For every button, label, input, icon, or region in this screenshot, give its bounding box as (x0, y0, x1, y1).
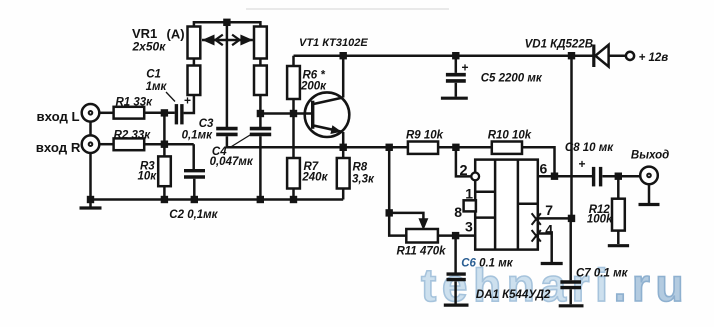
svg-text:7: 7 (545, 202, 553, 218)
svg-text:R10 10k: R10 10k (488, 129, 532, 141)
ground bus wire (91, 198, 344, 201)
ground (under C5) (441, 97, 468, 100)
ground (under C7) (559, 304, 584, 307)
diode VD1 (594, 45, 609, 68)
svg-text:C7 0.1 мк: C7 0.1 мк (576, 267, 629, 279)
svg-text:+: + (462, 61, 469, 75)
wire (617, 176, 620, 199)
capacitor C2 (184, 144, 205, 199)
wire (259, 95, 262, 127)
svg-text:8: 8 (454, 204, 462, 220)
wire (144, 143, 194, 146)
ground (under C6) (444, 304, 469, 307)
wire (R11 drop from emitter line) (388, 147, 391, 213)
node (pot top center) (223, 19, 230, 26)
wire (R10 to output node) (522, 147, 555, 176)
svg-text:1: 1 (465, 186, 473, 202)
svg-text:C1: C1 (146, 69, 161, 81)
node (supply drop at rail) (568, 52, 575, 59)
node G (386, 144, 393, 151)
ground (80, 200, 102, 209)
X mark pin 4 (532, 230, 541, 242)
wire (pot top rail) (194, 22, 261, 26)
wire (collector) (342, 56, 345, 98)
svg-text:вход L: вход L (37, 109, 80, 124)
wire (wiper feed) (389, 213, 423, 222)
wire (163, 186, 166, 199)
wire (pin 4 to ground) (538, 234, 552, 263)
wire (456, 146, 492, 149)
capacitor C5 (446, 56, 469, 97)
wire (184, 95, 194, 113)
svg-text:2x50к: 2x50к (132, 40, 167, 54)
resistor R11 (406, 229, 438, 243)
wire (output shell) (648, 184, 651, 203)
wire (pin 7) (538, 217, 572, 220)
watermark tehnari.ru (421, 258, 689, 312)
svg-text:4: 4 (545, 222, 553, 238)
wiper arrows of VR1 (202, 35, 253, 46)
node D (290, 110, 297, 117)
wire (99, 112, 114, 115)
svg-text:0,047мк: 0,047мк (210, 156, 254, 168)
svg-text:R2 33к: R2 33к (114, 129, 152, 141)
capacitor C8 (579, 157, 601, 186)
ground (output shell) (639, 203, 660, 206)
junction (shell-bus) (87, 196, 94, 203)
node F (R9/R10/pin2) (452, 144, 459, 151)
connector XS2 (вход R) (82, 135, 100, 153)
transistor VT1 (305, 92, 350, 137)
ground (under R12) (608, 244, 629, 247)
svg-text:VT1 КТ3102Е: VT1 КТ3102Е (299, 37, 368, 49)
svg-text:R1 33к: R1 33к (116, 96, 154, 108)
potentiometer VR1 section A (left) (188, 27, 201, 59)
svg-text:Выход: Выход (631, 149, 669, 161)
svg-text:240к: 240к (301, 172, 328, 184)
svg-text:2: 2 (460, 163, 468, 179)
terminal +12v (626, 52, 634, 60)
svg-text:100k: 100k (587, 213, 613, 225)
wire (89, 153, 92, 200)
wire (259, 59, 262, 66)
node (collector-rail) (340, 52, 347, 59)
node I (pin3/C6) (452, 232, 459, 239)
svg-text:+ 12в: + 12в (639, 52, 669, 64)
resistor R6 (287, 66, 300, 99)
resistor R12 (612, 199, 625, 231)
svg-text:вход R: вход R (36, 140, 81, 155)
svg-text:R11 470k: R11 470k (397, 246, 447, 258)
resistor R10 (492, 142, 522, 154)
junction (C4-bus) (257, 196, 264, 203)
wire (617, 231, 620, 244)
svg-text:6: 6 (540, 160, 548, 176)
svg-text:R8: R8 (353, 162, 368, 174)
wire (R11 left lead) (389, 213, 406, 236)
junction (C2-bus) (191, 196, 198, 203)
wire (144, 112, 175, 115)
ground (pin 4) (541, 262, 563, 265)
node A (mix node) (161, 109, 168, 116)
capacitor C6 (447, 236, 466, 304)
wiper arrow of R11 (419, 219, 427, 229)
node E (emitter) (340, 144, 347, 151)
connector XS1 (вход L) (82, 104, 100, 122)
node B (161, 141, 168, 148)
resistor R3 (158, 156, 171, 186)
wire (99, 143, 114, 146)
wire (base line) (260, 112, 311, 115)
wire (R11 right to pin 3) (438, 234, 475, 237)
wire (supply drop to pin 7 and C7) (570, 56, 573, 219)
svg-text:C3: C3 (199, 118, 214, 130)
op-amp DA1 body (475, 160, 538, 250)
wire (163, 113, 166, 157)
wire (438, 146, 456, 149)
svg-text:C2 0,1мк: C2 0,1мк (169, 209, 218, 221)
svg-text:200к: 200к (300, 80, 327, 92)
resistor R9 (408, 142, 438, 154)
wire (89, 121, 92, 136)
resistor R1 (114, 107, 145, 119)
resistor R7 (287, 158, 300, 189)
resistor R5 (254, 66, 267, 96)
X mark pin 7 (532, 213, 541, 225)
capacitor C4 (250, 129, 271, 135)
wire (emitter) (342, 132, 345, 158)
junction (R3-bus) (161, 196, 168, 203)
wire (pin 2 drop) (456, 147, 471, 176)
svg-text:+: + (579, 157, 586, 171)
svg-text:C8 10 мк: C8 10 мк (565, 142, 614, 154)
connector XS3 (Выход) (640, 167, 658, 185)
node H (R11 wiper node) (386, 209, 393, 216)
svg-text:R9 10k: R9 10k (406, 129, 444, 141)
resistor R2 (114, 138, 145, 150)
svg-text:3,3к: 3,3к (352, 173, 375, 185)
wire (pin 6 output) (538, 175, 592, 178)
svg-text:3: 3 (465, 219, 473, 235)
faint scan artifact line (246, 8, 449, 10)
op-amp pin 1 stub and box (pins 1/8) (464, 200, 476, 211)
svg-text:C6 0.1 мк: C6 0.1 мк (461, 258, 514, 270)
svg-text:DA1 К544УД2: DA1 К544УД2 (476, 289, 551, 301)
capacitor C1 (176, 94, 191, 125)
wire (193, 59, 196, 66)
svg-text:C5 2200 мк: C5 2200 мк (481, 72, 543, 84)
node C (257, 110, 264, 117)
wire (342, 189, 345, 200)
node L (R12 top) (615, 173, 622, 180)
svg-text:(А): (А) (167, 27, 185, 42)
leader line C4 (232, 134, 253, 147)
leader line C1 (166, 92, 175, 102)
node K (pin7/supply) (568, 215, 575, 222)
resistor R8 (337, 158, 350, 189)
junction (R7-bus) (290, 196, 297, 203)
svg-text:0,1мк: 0,1мк (182, 130, 213, 142)
wire (wiper line down to C3) (226, 22, 229, 127)
wire (609, 54, 626, 57)
node (C5-rail) (452, 52, 459, 59)
supply rail wire (294, 54, 594, 57)
wire (292, 189, 295, 200)
capacitor C7 (560, 218, 581, 304)
svg-text:VD1 КД522В: VD1 КД522В (525, 38, 593, 50)
op-amp pin 2 inversion bubble (471, 173, 479, 181)
wire (R6/R7 column) (292, 56, 295, 158)
resistor R4 (188, 66, 201, 96)
wire (C3 bottom to emitter line) (227, 136, 456, 147)
capacitor C3 (216, 129, 237, 135)
potentiometer VR1 section A (right) (254, 27, 267, 59)
wire (emitter line to R9) (343, 146, 408, 149)
node J (output node R10) (551, 173, 558, 180)
svg-text:10к: 10к (138, 171, 158, 183)
wire (C4 bottom to ground bus) (259, 136, 262, 199)
svg-text:1мк: 1мк (146, 81, 168, 93)
wire (C8 to output connector) (602, 175, 640, 178)
